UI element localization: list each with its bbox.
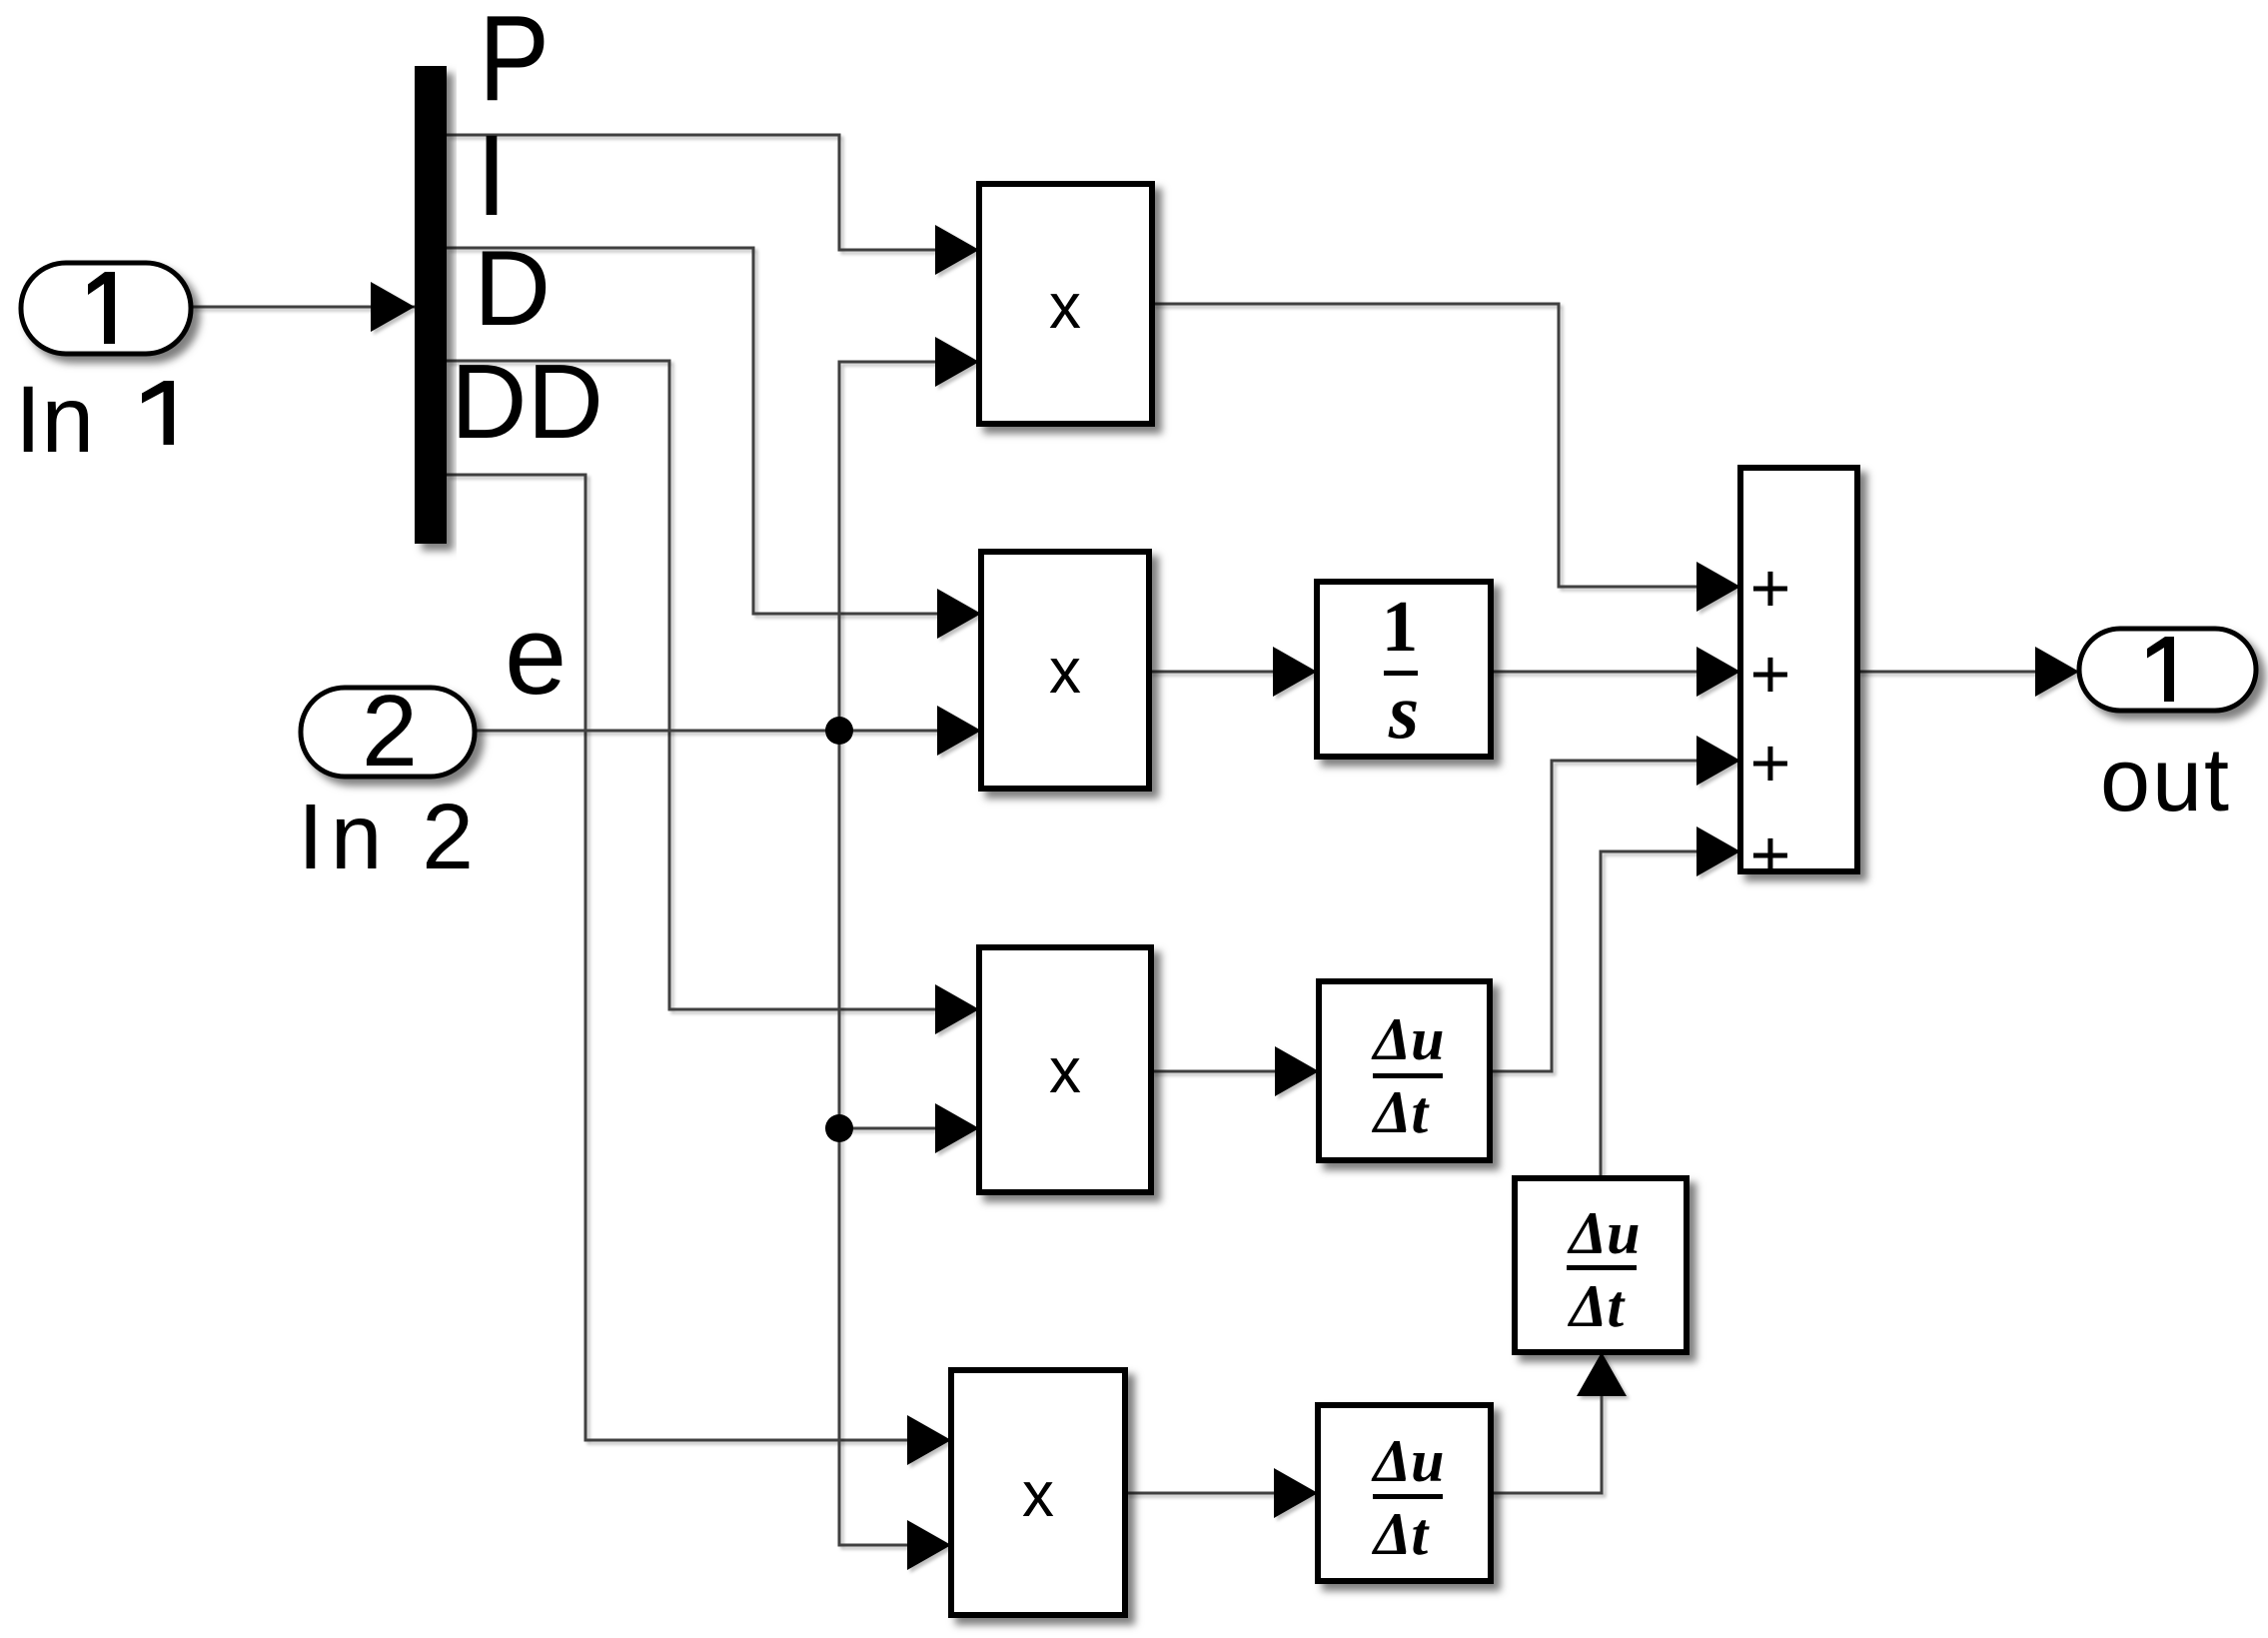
input port In1	[21, 263, 191, 354]
svg-text:In: In	[15, 367, 94, 473]
demux bar	[415, 66, 447, 544]
svg-text:Δt: Δt	[1372, 1501, 1431, 1567]
wire product4 output to derivative C	[1125, 1468, 1318, 1518]
svg-text:Δt: Δt	[1568, 1273, 1627, 1339]
input port In2	[301, 688, 475, 777]
wire e branch down	[839, 731, 951, 1570]
svg-text:+: +	[1750, 549, 1791, 627]
svg-text:Δu: Δu	[1372, 1428, 1445, 1494]
product block 2	[981, 552, 1149, 789]
integrator block 1/s	[1317, 582, 1491, 757]
sum block	[1740, 468, 1857, 871]
product block 3	[979, 947, 1151, 1192]
svg-text:2: 2	[362, 676, 418, 788]
svg-text:x: x	[1049, 1034, 1081, 1106]
wire DD: demux to product4 input1	[447, 475, 951, 1465]
wire sum output to Out port	[1857, 647, 2079, 697]
svg-text:x: x	[1022, 1458, 1054, 1530]
wire P: demux to product1 input1	[447, 135, 979, 275]
wire e branch up to product1 input2	[839, 337, 979, 731]
svg-text:+: +	[1750, 724, 1791, 802]
svg-text:e: e	[505, 593, 567, 718]
product block 4	[951, 1370, 1125, 1615]
svg-text:In 2: In 2	[298, 785, 474, 888]
svg-text:+: +	[1750, 635, 1791, 713]
svg-text:Δu: Δu	[1372, 1006, 1445, 1072]
svg-text:I: I	[476, 112, 508, 240]
svg-text:out: out	[2100, 731, 2229, 830]
svg-text:P: P	[479, 0, 550, 126]
wire derivative A output to sum input3	[1490, 736, 1740, 1071]
wire derivative B output to sum input4	[1601, 826, 1740, 1178]
svg-text:1: 1	[1382, 586, 1419, 667]
junction dot e at product3 feed	[825, 1114, 853, 1142]
derivative block A	[1319, 981, 1490, 1160]
wire product3 output to derivative A	[1151, 1046, 1319, 1096]
svg-text:D: D	[474, 228, 551, 348]
wire I: demux to product2 input1	[447, 248, 981, 639]
wire In1 to demux	[191, 282, 415, 332]
svg-text:Δu: Δu	[1568, 1200, 1641, 1266]
wire e: In2 to product2 input2	[475, 706, 981, 756]
svg-text:x: x	[1049, 635, 1081, 707]
derivative block B	[1515, 1178, 1687, 1352]
svg-text:s: s	[1388, 668, 1419, 755]
wire product2 output to integrator	[1149, 647, 1317, 697]
wire integrator output to sum input2	[1491, 647, 1740, 697]
wire e branch to product3 input2	[839, 1103, 979, 1153]
svg-text:Δt: Δt	[1372, 1079, 1431, 1145]
svg-text:+: +	[1750, 816, 1791, 893]
wire product1 output to sum input1	[1152, 304, 1740, 612]
output port out	[2079, 629, 2256, 711]
junction dot e at product2 feed	[825, 717, 853, 745]
wire derivative C output up into derivative B	[1491, 1352, 1627, 1493]
svg-text:x: x	[1049, 270, 1081, 342]
svg-text:DD: DD	[451, 343, 603, 461]
wire D: demux to product3 input1	[447, 361, 979, 1034]
derivative block C	[1318, 1405, 1491, 1581]
product block 1	[979, 184, 1152, 424]
